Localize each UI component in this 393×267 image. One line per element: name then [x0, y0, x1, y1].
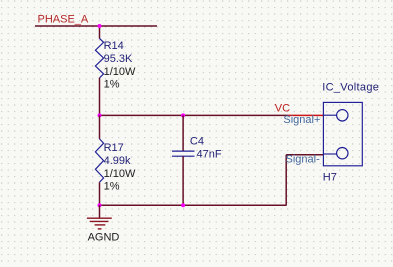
C4 top plate: [172, 150, 195, 152]
ground bar 2: [90, 220, 109, 222]
svg-text:VC: VC: [275, 103, 290, 115]
pin 2 circle: [337, 148, 348, 159]
svg-text:Signal+: Signal+: [283, 114, 320, 126]
junction node VC at C4: [181, 113, 185, 117]
ground bar 3: [95, 224, 106, 226]
pin 1 stub: [323, 114, 337, 116]
wire: Signal- horizontal to connector: [286, 154, 323, 156]
svg-text:C4: C4: [190, 136, 204, 148]
ground bar 4: [98, 228, 102, 230]
svg-text:95.3K: 95.3K: [104, 53, 133, 65]
ground bar 1: [87, 217, 112, 219]
wire: node VC to C4 top plate: [182, 115, 184, 151]
svg-text:H7: H7: [323, 171, 337, 183]
pin 2 stub: [323, 153, 337, 155]
svg-text:1%: 1%: [104, 79, 120, 91]
wire: C4 bottom plate to ground net: [182, 156, 184, 205]
svg-text:47nF: 47nF: [197, 149, 222, 161]
junction ground node at R17: [98, 203, 102, 207]
wire: R14 bottom to node VC: [99, 78, 101, 115]
wire: top horizontal net PHASE_A: [35, 25, 157, 27]
svg-text:1/10W: 1/10W: [104, 66, 136, 78]
power pin segment VC (red): [288, 114, 323, 116]
svg-text:1%: 1%: [104, 181, 120, 193]
svg-text:4.99k: 4.99k: [104, 155, 131, 167]
ground stem: [99, 205, 101, 218]
H7 body: [323, 102, 362, 165]
wire: vertical from Signal- down to ground net: [285, 155, 287, 205]
wire: node VC to R17 top: [99, 115, 101, 138]
wire: junction1 to R14 top: [99, 26, 101, 39]
svg-text:1/10W: 1/10W: [104, 168, 136, 180]
junction ground node at C4: [181, 203, 185, 207]
svg-text:PHASE_A: PHASE_A: [38, 14, 89, 26]
svg-text:R14: R14: [104, 40, 124, 52]
svg-text:AGND: AGND: [88, 231, 120, 243]
svg-text:Signal-: Signal-: [286, 154, 321, 166]
pin 1 circle: [337, 110, 348, 121]
junction node VC at R14/R17: [98, 113, 102, 117]
wire: R17 bottom to ground node: [99, 182, 101, 205]
ground AGND: [87, 205, 112, 229]
wire: bottom horizontal ground net: [100, 204, 287, 206]
capacitor C4: [172, 115, 195, 205]
junction node PHASE_A / R14: [98, 24, 102, 28]
C4 bottom plate: [172, 155, 195, 157]
svg-text:IC_Voltage: IC_Voltage: [322, 81, 379, 93]
resistor R17: [95, 139, 103, 182]
connector H7: [323, 102, 362, 165]
wire: middle horizontal net VC: [100, 114, 289, 116]
resistor R14: [95, 38, 103, 77]
svg-text:R17: R17: [104, 142, 124, 154]
